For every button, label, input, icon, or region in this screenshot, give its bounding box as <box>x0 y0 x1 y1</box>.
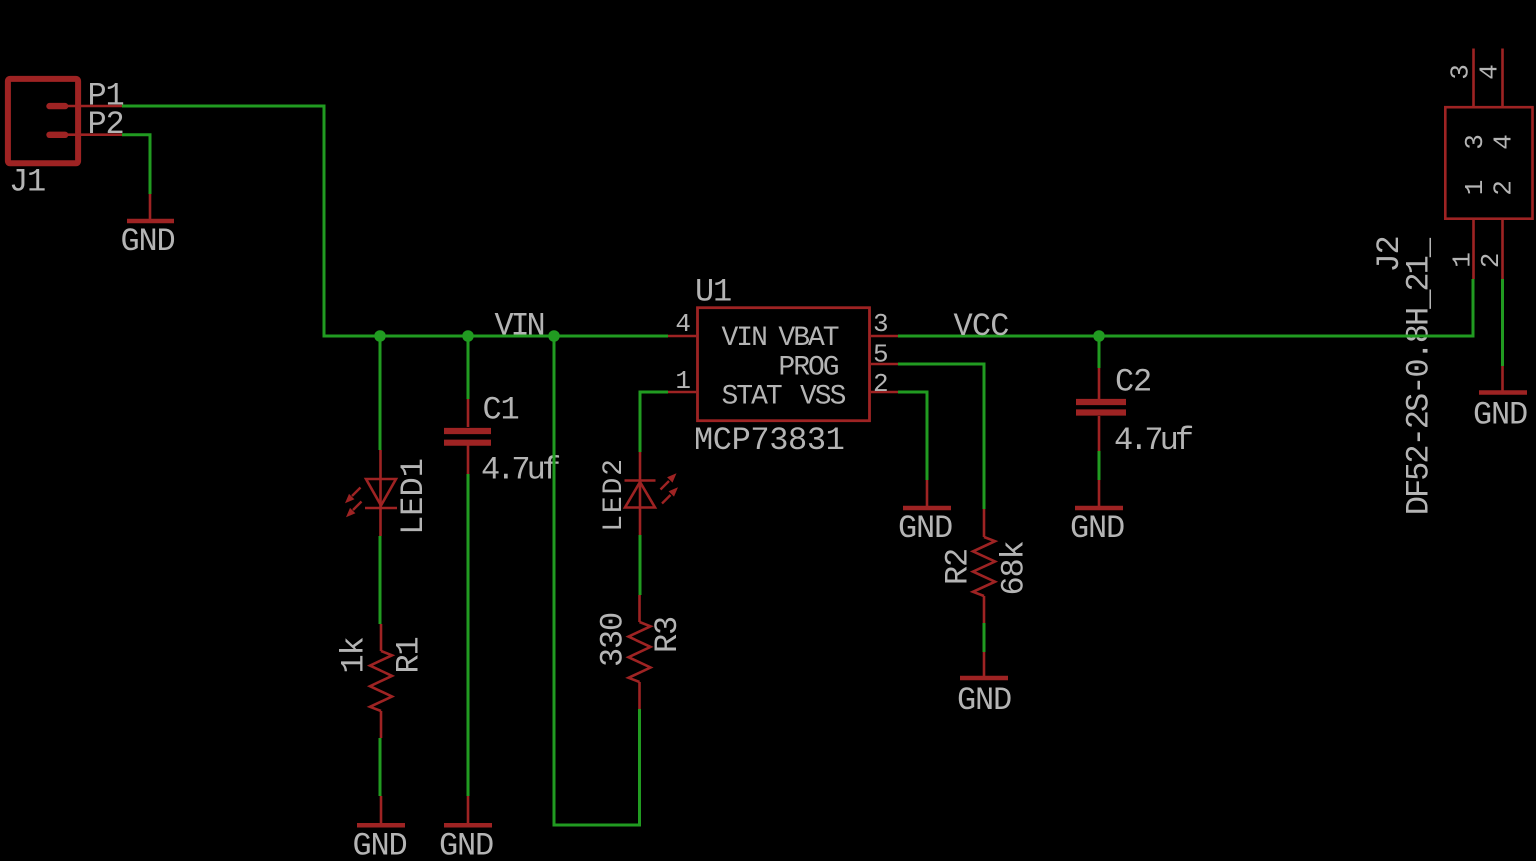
wire LED2 to R3 <box>639 535 642 595</box>
label R1 <box>391 637 428 673</box>
wire VSS to ground <box>898 392 927 480</box>
label LED2 <box>599 457 630 531</box>
ground under VSS <box>898 480 952 547</box>
value DF52-2S-0.8H_21_ <box>1401 237 1438 515</box>
svg-text:4.7uf: 4.7uf <box>481 452 560 489</box>
wire C2 to ground <box>1098 451 1101 480</box>
wire C1 to ground <box>467 474 470 796</box>
junction node at R3 branch <box>548 330 560 342</box>
wire STAT to LED2 <box>640 392 668 452</box>
svg-text:J1: J1 <box>9 164 45 201</box>
svg-text:STAT: STAT <box>722 382 782 413</box>
wire VIN bus <box>380 335 668 338</box>
pad 4 inner <box>1489 134 1519 150</box>
ground under R1 <box>352 796 406 861</box>
pad 1 inner <box>1460 180 1490 196</box>
pad 3 inner <box>1460 134 1490 150</box>
wire VIN branch down to R3 <box>554 336 640 825</box>
svg-text:U1: U1 <box>695 274 731 311</box>
svg-text:2: 2 <box>873 369 889 399</box>
junction node at C2 <box>1093 330 1105 342</box>
pin 4 top <box>1475 64 1505 80</box>
ground under R2 <box>957 652 1011 719</box>
svg-text:68k: 68k <box>996 541 1033 595</box>
pin 1 bottom <box>1448 252 1478 268</box>
svg-text:3: 3 <box>1460 134 1490 150</box>
label R2 <box>940 549 977 585</box>
svg-text:2: 2 <box>1489 180 1519 196</box>
IC U1 <box>668 308 898 421</box>
pad 2 inner <box>1489 180 1519 196</box>
svg-text:VIN: VIN <box>722 323 767 354</box>
label LED1 <box>395 458 432 535</box>
wire VCC from pin 3 to J2 <box>898 279 1473 336</box>
wire VCC crossing over J2 value text <box>1392 335 1448 338</box>
svg-text:VBAT: VBAT <box>778 323 838 354</box>
svg-text:1: 1 <box>1460 180 1490 196</box>
wire R1 to ground <box>379 738 382 796</box>
ground under J2 <box>1473 366 1527 434</box>
svg-text:GND: GND <box>1473 397 1527 434</box>
svg-text:GND: GND <box>1070 510 1124 547</box>
svg-text:R3: R3 <box>649 617 686 653</box>
svg-text:GND: GND <box>352 828 406 861</box>
resistor R3 <box>629 595 651 709</box>
junction node at C1 <box>462 330 474 342</box>
svg-text:4: 4 <box>1475 64 1505 80</box>
svg-text:GND: GND <box>957 682 1011 719</box>
connector J2 <box>1445 49 1532 280</box>
label J2 <box>1371 236 1408 272</box>
wire PROG to R2 <box>898 364 984 509</box>
svg-text:C1: C1 <box>483 392 519 429</box>
svg-text:3: 3 <box>873 309 889 339</box>
svg-text:4.7uf: 4.7uf <box>1114 422 1193 459</box>
svg-text:GND: GND <box>439 828 493 861</box>
connector J1 <box>8 79 122 201</box>
value 68k <box>996 541 1033 595</box>
svg-text:330: 330 <box>595 613 632 667</box>
svg-text:GND: GND <box>120 223 174 260</box>
svg-text:3: 3 <box>1446 64 1476 80</box>
svg-text:LED2: LED2 <box>599 457 630 531</box>
wire LED1 to R1 <box>379 536 382 624</box>
label R3 <box>649 617 686 653</box>
svg-text:DF52-2S-0.8H_21_: DF52-2S-0.8H_21_ <box>1401 237 1438 515</box>
pin 3 top <box>1446 64 1476 80</box>
svg-text:1k: 1k <box>336 637 373 673</box>
ground under C2 <box>1070 480 1124 547</box>
svg-text:1: 1 <box>675 366 691 396</box>
ground under C1 <box>439 796 493 861</box>
svg-text:1: 1 <box>1448 252 1478 268</box>
junction node at LED1 <box>374 330 386 342</box>
svg-text:GND: GND <box>898 510 952 547</box>
pin 2 bottom <box>1476 253 1506 269</box>
LED LED2 <box>625 452 679 535</box>
svg-text:2: 2 <box>1476 253 1506 269</box>
wire P2 to ground <box>122 135 150 194</box>
svg-text:VSS: VSS <box>800 382 846 413</box>
svg-text:4: 4 <box>1489 134 1519 150</box>
ground under P2 <box>120 194 174 260</box>
svg-text:PROG: PROG <box>778 353 838 384</box>
resistor R2 <box>973 509 995 623</box>
wire VCC to C2 <box>1098 336 1101 368</box>
svg-text:4: 4 <box>675 309 691 339</box>
resistor R1 <box>370 624 392 738</box>
svg-text:C2: C2 <box>1115 364 1151 401</box>
LED LED1 <box>345 450 397 536</box>
value 1k <box>336 637 373 673</box>
capacitor C1 <box>444 399 491 474</box>
svg-text:R1: R1 <box>391 637 428 673</box>
svg-text:MCP73831: MCP73831 <box>694 422 844 459</box>
svg-text:VIN: VIN <box>495 308 544 345</box>
svg-text:VCC: VCC <box>954 308 1009 345</box>
wire P1 to VIN bus <box>122 106 380 336</box>
svg-text:R2: R2 <box>940 549 977 585</box>
wire VIN to C1 <box>467 336 470 399</box>
svg-text:P2: P2 <box>88 106 124 143</box>
svg-text:LED1: LED1 <box>395 458 432 535</box>
svg-text:5: 5 <box>873 340 889 370</box>
wire J2 pin 2 to ground <box>1501 279 1504 366</box>
value 330 <box>595 613 632 667</box>
capacitor C2 <box>1076 368 1126 451</box>
wire R2 to ground <box>983 623 986 652</box>
wire VIN to LED1 <box>379 336 382 450</box>
